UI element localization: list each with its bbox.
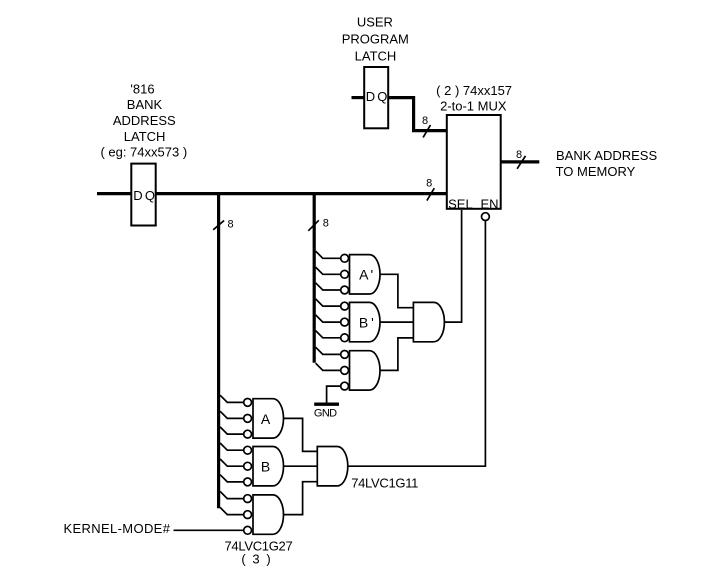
gate A' : 3-input AND shape with inverted inputs (350, 255, 381, 294)
bus width marker 8 on latch-to-MUX wire (422, 115, 430, 137)
svg-text:PROGRAM: PROGRAM (342, 32, 409, 47)
label: BANK ADDRESS TO MEMORY (556, 148, 658, 179)
wire: gate B' output to middle AND input (380, 321, 413, 323)
svg-text:8: 8 (426, 178, 432, 190)
svg-text:EN: EN (480, 197, 498, 212)
latch: user program latch (D Q) (364, 67, 388, 128)
svg-text:8: 8 (422, 115, 428, 127)
svg-text:8: 8 (323, 217, 329, 229)
wire: third middle gate output to middle AND input (380, 338, 413, 371)
inversion bubble on MUX EN pin (482, 213, 490, 221)
input bubbles of gate A (244, 399, 252, 439)
label: ( 2 ) 74xx157 2-to-1 MUX (436, 83, 512, 114)
bus width marker 8 on output bus (516, 149, 526, 169)
input bubbles of gate B' (341, 302, 349, 341)
wire: KERNEL-MODE# input to bottom gate (174, 529, 244, 531)
gate A : 3-input AND shape with inverted inputs (253, 399, 284, 438)
svg-text:BANK: BANK (127, 97, 163, 112)
label: 74LVC1G27 ( 3 ) (225, 539, 293, 567)
svg-text:USER: USER (357, 15, 393, 30)
wire: taps from branch 1 to gate B inputs (220, 443, 244, 482)
svg-text:8: 8 (228, 219, 234, 231)
svg-text:ADDRESS: ADDRESS (113, 113, 176, 128)
wire: MUX output bus to memory (501, 160, 540, 163)
wire: taps from branch 2 to third middle gate inputs (316, 347, 341, 370)
bus: vertical branch 1 (to kernel-mode gates) (217, 194, 220, 509)
wire: taps from branch 1 to gate A inputs (220, 395, 244, 434)
wire: taps from branch 2 to gate B' inputs (316, 299, 341, 338)
svg-text:KERNEL-MODE#: KERNEL-MODE# (64, 521, 171, 536)
svg-text:( eg: 74xx573 ): ( eg: 74xx573 ) (100, 145, 187, 160)
svg-text:A ': A ' (359, 267, 373, 283)
svg-text:( 3 ): ( 3 ) (241, 551, 272, 566)
svg-text:D Q: D Q (366, 89, 388, 104)
label: '816 BANK ADDRESS LATCH ( eg: 74xx573 ) (100, 81, 187, 159)
input bubbles of bottom gate (244, 495, 252, 534)
wire: main bank address bus (horizontal) (97, 192, 447, 195)
wire: gate A output to G11 input (284, 418, 318, 451)
mux U1: 74xx157 2-to-1 MUX box (447, 115, 501, 212)
svg-text:A: A (261, 411, 271, 427)
svg-text:'816: '816 (130, 81, 154, 96)
bus: vertical branch 2 (to A'/B' gates) (313, 194, 316, 363)
wire: bottom gate output to G11 input (284, 482, 318, 515)
svg-text:( 2 ) 74xx157: ( 2 ) 74xx157 (436, 83, 512, 98)
latch: '816 bank address latch (D Q) (131, 164, 155, 226)
svg-text:LATCH: LATCH (355, 48, 397, 63)
svg-text:B ': B ' (359, 315, 373, 331)
input bubbles of gate B (244, 446, 252, 485)
svg-text:B: B (261, 458, 270, 474)
svg-text:TO MEMORY: TO MEMORY (556, 164, 636, 179)
ground symbol GND (314, 404, 339, 419)
svg-text:8: 8 (516, 149, 522, 161)
gate U2: 74LVC1G11 3-input AND (317, 447, 418, 491)
gate: middle 3-input AND (413, 302, 444, 341)
svg-text:74LVC1G11: 74LVC1G11 (351, 476, 418, 491)
gate B' : 3-input AND shape with inverted inputs (350, 302, 381, 341)
wire: Q output of user program latch down to MUX A input (388, 98, 447, 131)
svg-text:2-to-1 MUX: 2-to-1 MUX (440, 99, 507, 114)
svg-text:D Q: D Q (133, 188, 155, 203)
bus width marker 8 on branch 2 (308, 217, 329, 231)
wire: gate A' output to middle AND input (380, 274, 413, 307)
svg-text:SEL: SEL (448, 197, 473, 212)
wire: gate B output to G11 input (284, 465, 318, 467)
label: USER PROGRAM LATCH (342, 15, 409, 64)
bus width marker 8 on main bus at MUX input (426, 178, 434, 201)
gate B : 3-input AND shape with inverted inputs (253, 447, 284, 486)
bus width marker 8 on branch 1 (213, 219, 233, 231)
input bubbles of third middle gate (341, 351, 349, 391)
wire: D input stub of user program latch (352, 96, 365, 99)
svg-text:BANK ADDRESS: BANK ADDRESS (556, 148, 657, 163)
wire: GND to third middle gate bottom input (327, 386, 341, 403)
wire: G11 output right and up to MUX EN bubble (348, 221, 486, 467)
svg-text:LATCH: LATCH (124, 129, 166, 144)
wire: taps from branch 2 to gate A' inputs (316, 251, 341, 290)
input bubbles of gate A' (341, 254, 349, 294)
wire: taps from branch 1 to bottom gate inputs (220, 491, 244, 514)
gate: third middle 3-input AND shape with inverted inputs (350, 351, 381, 390)
svg-text:GND: GND (314, 408, 337, 420)
gate: bottom 3-input AND shape with inverted inputs (74LVC1G27) (253, 495, 284, 534)
wire: middle AND output up to MUX SEL pin (444, 210, 461, 322)
